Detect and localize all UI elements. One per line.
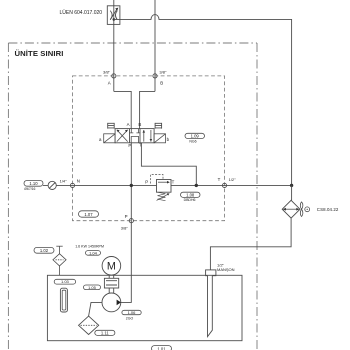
valve right cell parallel arrows xyxy=(143,130,153,142)
wire: T line from valve to tank return xyxy=(141,143,196,186)
balloon 1.02 xyxy=(34,247,54,253)
svg-text:1.09: 1.09 xyxy=(191,133,200,138)
svg-text:T: T xyxy=(172,179,175,184)
svg-text:CS8.04.22: CS8.04.22 xyxy=(317,207,339,212)
balloon 1.10 xyxy=(24,181,43,192)
port N xyxy=(70,178,80,187)
svg-text:NG6: NG6 xyxy=(189,139,196,143)
svg-text:A: A xyxy=(127,122,130,127)
svg-text:1/2": 1/2" xyxy=(229,177,237,182)
wire: main manifold line N to right junction xyxy=(43,184,292,186)
svg-text:P: P xyxy=(145,179,148,184)
valve right solenoid b xyxy=(154,134,165,143)
junction P on manifold line xyxy=(130,184,133,187)
svg-text:B: B xyxy=(160,80,163,85)
svg-text:3/8": 3/8" xyxy=(159,70,167,75)
svg-text:1.06: 1.06 xyxy=(128,310,137,315)
svg-text:T: T xyxy=(218,177,221,182)
balloon 1.11 xyxy=(95,330,115,335)
svg-text:P: P xyxy=(125,214,128,219)
svg-text:2GO: 2GO xyxy=(126,316,134,320)
svg-text:A: A xyxy=(108,80,111,85)
valve port labels xyxy=(127,122,143,148)
directional valve 1.09 body xyxy=(115,129,154,143)
electric motor M xyxy=(102,257,121,276)
balloon 1.09 xyxy=(185,133,205,143)
suction spear pipe xyxy=(208,276,213,337)
svg-text:1.05: 1.05 xyxy=(88,285,97,290)
balloon 1.01 xyxy=(152,346,172,350)
svg-text:N: N xyxy=(77,178,80,183)
air breather 1.02 xyxy=(53,246,66,275)
gear pump 1.06 xyxy=(102,293,121,312)
shaft coupling xyxy=(104,276,118,294)
svg-text:ÜNİTE SINIRI: ÜNİTE SINIRI xyxy=(15,49,64,58)
suction strainer 1.11 xyxy=(79,316,99,334)
svg-text:1.08: 1.08 xyxy=(186,192,195,197)
balloon 1.06 xyxy=(122,310,141,320)
port A xyxy=(103,70,116,86)
balloon 1.07 xyxy=(79,211,99,217)
balloon 1.04 xyxy=(86,250,101,255)
svg-text:1.01: 1.01 xyxy=(157,346,166,350)
svg-text:1.11: 1.11 xyxy=(101,330,110,335)
wire: B-line from top to port B and down xyxy=(154,0,156,91)
wire: tap line from flow control to right side (with hop over B-line) xyxy=(114,15,292,186)
valve left cell crossed arrows xyxy=(117,130,128,142)
svg-text:1.6 KW 1450RPM: 1.6 KW 1450RPM xyxy=(75,245,104,249)
junction T return xyxy=(195,184,198,187)
port B xyxy=(153,70,167,86)
balloon 1.08 xyxy=(181,192,201,202)
svg-text:3/8": 3/8" xyxy=(103,70,111,75)
valve left spring xyxy=(108,123,115,129)
junction right line xyxy=(290,184,293,187)
wire: step from B down to valve port B xyxy=(140,91,155,128)
tank reservoir xyxy=(47,275,242,340)
wire: P line from valve down to pump xyxy=(121,143,132,303)
balloon 1.03 xyxy=(54,279,75,284)
svg-text:1.02: 1.02 xyxy=(40,248,49,253)
svg-text:B: B xyxy=(138,122,141,127)
oil level gauge xyxy=(60,288,67,312)
plug with gauge port 1.10 xyxy=(48,181,56,189)
svg-text:M: M xyxy=(107,261,116,273)
svg-text:1.07: 1.07 xyxy=(84,212,93,217)
svg-text:1.10: 1.10 xyxy=(29,181,38,186)
unit boundary ÜNİTE SINIRI (dash-dot frame) xyxy=(8,43,257,350)
svg-text:1.03: 1.03 xyxy=(61,279,70,284)
relief valve 1.08 DBDH6 xyxy=(145,175,174,201)
svg-text:1/4": 1/4" xyxy=(60,178,68,183)
port T xyxy=(218,177,237,187)
valve center cell (blocked A/B, P to T) xyxy=(129,129,140,143)
wire: A-line from top through flow control to port A xyxy=(113,0,115,91)
coupling 1/2" MANŞON xyxy=(206,262,235,275)
svg-text:Ø67/16: Ø67/16 xyxy=(24,187,35,191)
wire: step from A down to valve port A xyxy=(114,91,131,128)
cooler fan xyxy=(300,202,309,217)
wire: return line from cooler to tank xyxy=(210,218,291,270)
balloon 1.05 xyxy=(84,285,101,290)
port P xyxy=(121,214,134,230)
valve left solenoid a xyxy=(104,134,115,143)
valve block boundary (dashed box) xyxy=(73,76,225,221)
svg-text:1.04: 1.04 xyxy=(89,250,98,255)
svg-text:MANŞON: MANŞON xyxy=(217,267,235,272)
cooler CS8.04.22 xyxy=(282,185,300,218)
valve right spring xyxy=(155,123,162,129)
flow control valve LÜEN 604.017.020 xyxy=(107,6,120,25)
svg-text:3/8": 3/8" xyxy=(121,226,129,231)
svg-text:LÜEN 604.017.020: LÜEN 604.017.020 xyxy=(60,9,103,16)
wire: suction line pump to strainer xyxy=(89,302,102,316)
svg-text:DBDH6: DBDH6 xyxy=(184,198,196,202)
